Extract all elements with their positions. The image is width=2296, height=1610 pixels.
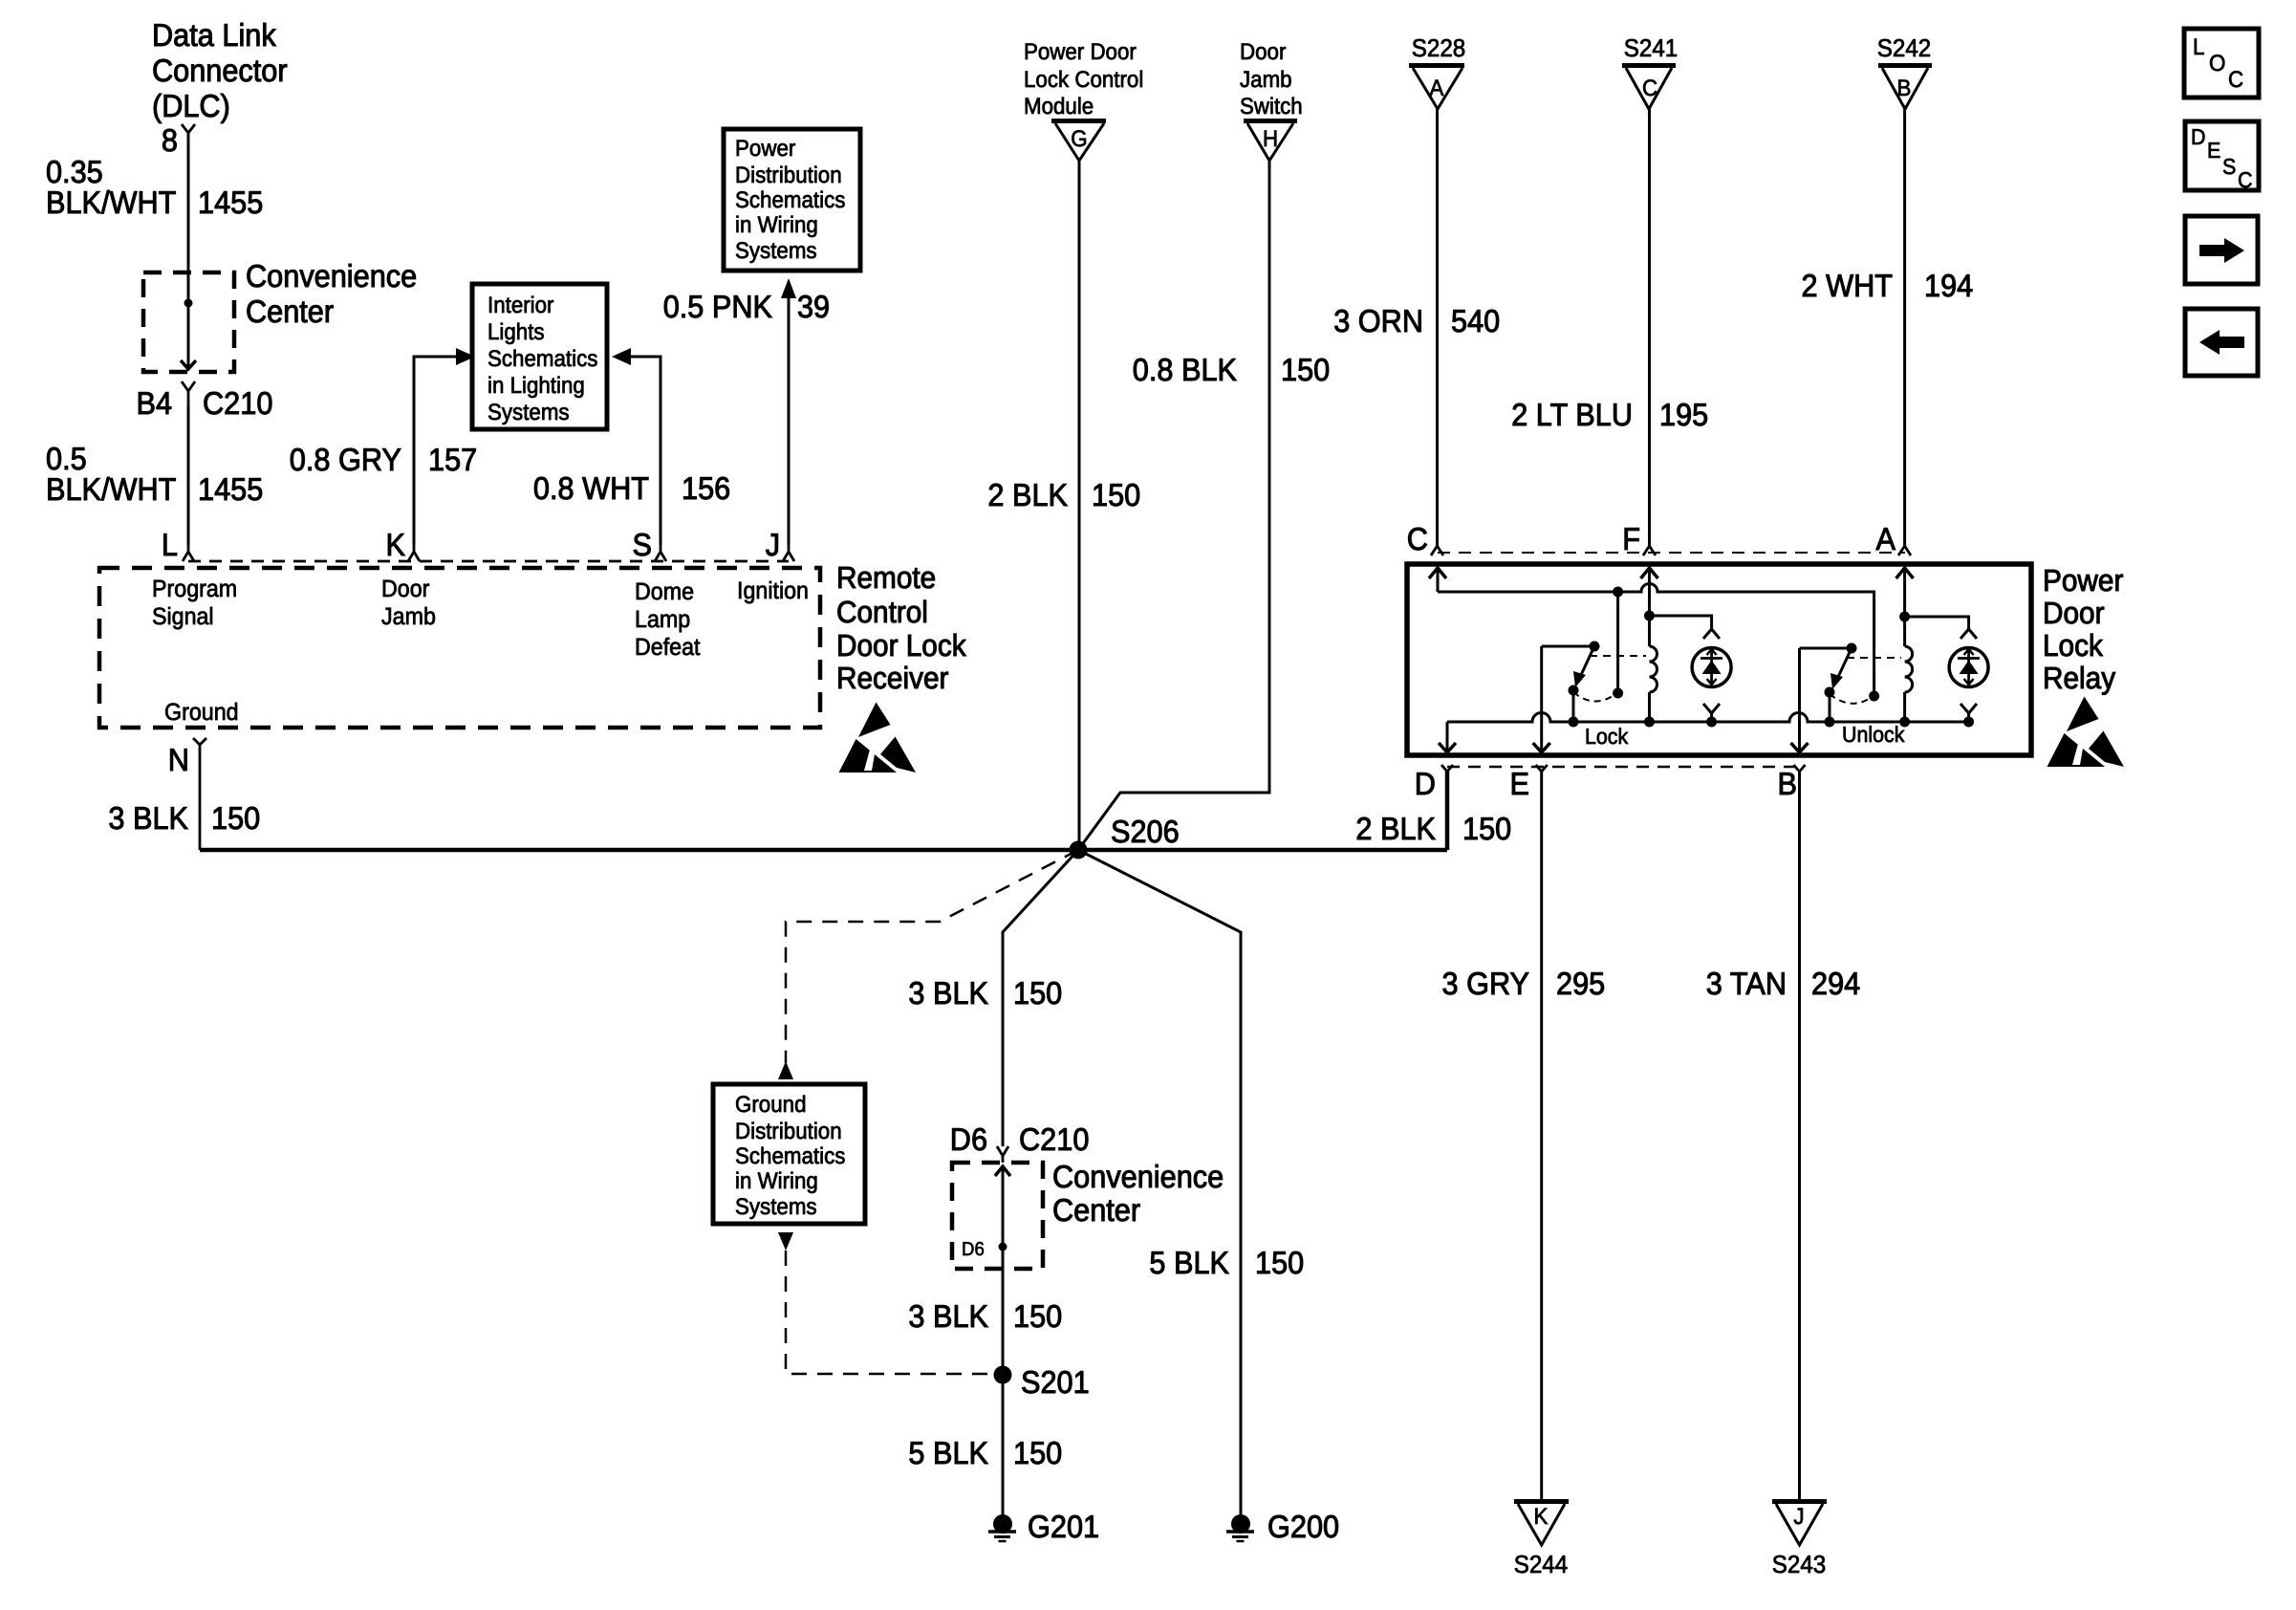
wire 3 TAN 294 : relay B down to S243 xyxy=(1798,772,1801,1499)
pin label Door Jamb xyxy=(381,576,436,630)
wire through lower Convenience Center with arrow up and D6 dot xyxy=(962,1166,1010,1375)
svg-text:150: 150 xyxy=(1013,975,1062,1011)
wire 0.5 BLK/WHT 1455 : C210 down to receiver terminal L xyxy=(187,405,190,545)
svg-text:Systems: Systems xyxy=(487,400,570,425)
svg-text:G200: G200 xyxy=(1267,1509,1339,1544)
component Power Door Lock Relay box xyxy=(1407,564,2031,755)
svg-text:Power Door: Power Door xyxy=(1024,39,1137,65)
svg-text:Lock: Lock xyxy=(1585,724,1629,749)
svg-text:Door Lock: Door Lock xyxy=(836,628,967,663)
svg-text:Data Link: Data Link xyxy=(152,17,276,53)
label 3 BLK 150 (lower) xyxy=(908,1298,1062,1334)
svg-text:C210: C210 xyxy=(1019,1121,1089,1157)
wire 3 ORN 540 : S228 A down to relay terminal C xyxy=(1436,109,1439,546)
terminal K of receiver xyxy=(386,527,421,562)
svg-text:2 BLK: 2 BLK xyxy=(1355,811,1436,846)
svg-text:3 BLK: 3 BLK xyxy=(108,800,188,836)
connector C210 pin B4 xyxy=(137,381,273,421)
svg-text:in Wiring: in Wiring xyxy=(735,1168,818,1194)
svg-text:Lamp: Lamp xyxy=(635,606,690,633)
wire 0.8 BLK 150 : H down then left to S206 xyxy=(1078,161,1269,850)
svg-text:C: C xyxy=(1407,521,1428,556)
connector triangle J to S243 xyxy=(1772,1499,1827,1578)
relay internal: arrow up at C xyxy=(1429,568,1446,592)
svg-text:0.5 PNK: 0.5 PNK xyxy=(663,289,772,324)
svg-text:G201: G201 xyxy=(1028,1509,1099,1544)
svg-text:A: A xyxy=(1876,521,1896,556)
connector triangle B from S242 xyxy=(1877,33,1932,109)
svg-text:Lights: Lights xyxy=(487,319,545,345)
svg-text:Ignition: Ignition xyxy=(737,577,809,604)
component Convenience Center (upper dashed box) xyxy=(143,272,234,372)
node Power Distribution Schematics in Wiring Systems box xyxy=(724,129,860,271)
svg-text:H: H xyxy=(1263,126,1278,152)
svg-text:Relay: Relay xyxy=(2043,661,2115,695)
svg-text:3 BLK: 3 BLK xyxy=(908,975,988,1011)
svg-text:156: 156 xyxy=(682,470,730,506)
wire 3 BLK 150 : S206 down-left to C210 D6 xyxy=(1003,850,1078,1146)
wire 0.5 PNK 39 : terminal J up arrow to Power Distribution box xyxy=(781,278,796,545)
svg-text:Schematics: Schematics xyxy=(487,346,597,372)
terminal L of receiver xyxy=(162,527,194,562)
terminal C of relay xyxy=(1407,521,1443,556)
wire 5 BLK 150 : S201 down to G201 xyxy=(1002,1375,1005,1519)
terminal D of relay xyxy=(1415,765,1453,850)
lock relay coil xyxy=(1644,616,1657,728)
junction S201 xyxy=(994,1364,1090,1400)
svg-text:540: 540 xyxy=(1451,303,1500,338)
svg-text:39: 39 xyxy=(797,289,830,324)
svg-text:S206: S206 xyxy=(1111,814,1180,849)
svg-text:294: 294 xyxy=(1811,966,1860,1001)
wire ground bus from N to S206 to D xyxy=(200,772,1447,850)
svg-text:Schematics: Schematics xyxy=(735,187,845,213)
connector strip dashed line at relay top xyxy=(1438,552,1905,554)
svg-text:150: 150 xyxy=(1013,1435,1062,1470)
svg-text:C: C xyxy=(1642,76,1657,101)
ESD sensitive symbol (receiver) xyxy=(839,703,917,773)
svg-text:N: N xyxy=(168,742,189,777)
svg-text:Switch: Switch xyxy=(1240,94,1303,120)
arrow up into Ground Distribution box xyxy=(778,1061,793,1079)
svg-text:Door: Door xyxy=(2043,596,2105,630)
svg-text:Receiver: Receiver xyxy=(836,661,949,695)
unlock relay coil xyxy=(1899,617,1913,728)
svg-text:(DLC): (DLC) xyxy=(152,88,230,123)
svg-text:B: B xyxy=(1897,76,1912,101)
svg-text:5 BLK: 5 BLK xyxy=(1149,1245,1229,1280)
label 2 BLK 150 (D wire) xyxy=(1355,811,1511,846)
label 3 BLK 150 (N ground wire) xyxy=(108,800,260,836)
label 0.5 PNK 39 xyxy=(663,289,830,324)
node Ground Distribution Schematics in Wiring Systems box xyxy=(713,1084,865,1224)
svg-text:S241: S241 xyxy=(1624,33,1679,62)
wire 0.35 BLK/WHT 1455 : DLC pin 8 down to Convenience Center xyxy=(187,133,190,272)
component Convenience Center (lower dashed box) xyxy=(952,1163,1043,1269)
svg-text:K: K xyxy=(386,527,406,562)
svg-text:Interior: Interior xyxy=(487,293,554,318)
svg-text:Ground: Ground xyxy=(735,1092,807,1118)
svg-text:150: 150 xyxy=(1013,1298,1062,1334)
svg-text:3 ORN: 3 ORN xyxy=(1333,303,1423,338)
connector triangle C from S241 xyxy=(1622,33,1678,109)
svg-text:F: F xyxy=(1622,521,1640,556)
svg-text:Door: Door xyxy=(1240,39,1286,65)
svg-text:in Lighting: in Lighting xyxy=(487,373,585,399)
svg-text:J: J xyxy=(1793,1504,1804,1530)
svg-text:Ground: Ground xyxy=(164,699,239,726)
svg-text:Systems: Systems xyxy=(735,1194,817,1220)
svg-text:150: 150 xyxy=(1462,811,1511,846)
connector C210 pin D6 xyxy=(950,1121,1090,1163)
svg-text:150: 150 xyxy=(1255,1245,1304,1280)
node Power Door Lock Relay title xyxy=(2043,563,2124,695)
lock switch (relay armature) xyxy=(1542,642,1646,728)
svg-text:D6: D6 xyxy=(962,1239,985,1260)
svg-text:Lock: Lock xyxy=(2043,628,2104,663)
svg-text:150: 150 xyxy=(1281,352,1330,387)
svg-text:295: 295 xyxy=(1556,966,1605,1001)
svg-text:C: C xyxy=(2228,67,2243,93)
node LOC legend box xyxy=(2184,29,2259,98)
svg-text:E: E xyxy=(1510,766,1530,801)
label 5 BLK 150 (G201 wire) xyxy=(908,1435,1062,1470)
terminal F of relay xyxy=(1622,521,1656,556)
svg-text:Jamb: Jamb xyxy=(1240,67,1292,93)
terminal A of relay xyxy=(1876,521,1912,556)
label 0.8 WHT 156 xyxy=(533,470,730,506)
svg-text:0.8 GRY: 0.8 GRY xyxy=(290,442,401,477)
svg-text:194: 194 xyxy=(1924,268,1973,303)
svg-text:S242: S242 xyxy=(1877,33,1932,62)
svg-text:L: L xyxy=(2193,34,2204,60)
terminal B of relay xyxy=(1778,765,1806,801)
node right-arrow legend box xyxy=(2185,216,2258,284)
svg-text:Systems: Systems xyxy=(735,238,817,264)
svg-text:Power: Power xyxy=(735,136,795,162)
relay internal: E wire down with arrow xyxy=(1533,646,1550,752)
svg-text:2 WHT: 2 WHT xyxy=(1802,268,1894,303)
svg-text:Door: Door xyxy=(381,576,429,602)
svg-text:K: K xyxy=(1534,1504,1549,1530)
svg-text:Dome: Dome xyxy=(635,578,694,605)
svg-text:B: B xyxy=(1778,766,1798,801)
wire 0.8 GRY 157 : terminal K up and arrow into Interior Lights box xyxy=(414,348,475,545)
connector strip dashed line at relay bottom xyxy=(1447,766,1800,769)
svg-text:150: 150 xyxy=(211,800,260,836)
unlock clamping diode D2 xyxy=(1905,617,1989,728)
svg-text:C210: C210 xyxy=(203,385,272,421)
svg-text:O: O xyxy=(2209,51,2225,76)
pin label Program Signal xyxy=(152,576,237,630)
svg-text:Convenience: Convenience xyxy=(246,258,417,294)
svg-text:BLK/WHT: BLK/WHT xyxy=(46,471,176,507)
node Data Link Connector (DLC) title xyxy=(152,17,288,123)
wire 3 GRY 295 : relay E down to S244 xyxy=(1540,772,1543,1499)
svg-text:S201: S201 xyxy=(1021,1364,1090,1400)
svg-text:S: S xyxy=(633,527,653,562)
svg-text:C: C xyxy=(2238,167,2253,192)
svg-text:1455: 1455 xyxy=(198,185,263,220)
svg-text:2 BLK: 2 BLK xyxy=(987,477,1068,512)
node Power Door Lock Control Module title xyxy=(1024,39,1143,120)
svg-text:Jamb: Jamb xyxy=(381,603,436,630)
label 3 BLK 150 (upper) xyxy=(908,975,1062,1011)
svg-text:Power: Power xyxy=(2043,563,2124,598)
node DESC legend box xyxy=(2185,121,2259,192)
pin label Dome Lamp Defeat xyxy=(635,578,701,661)
svg-text:5 BLK: 5 BLK xyxy=(908,1435,988,1470)
svg-text:Signal: Signal xyxy=(152,603,214,630)
connector triangle H (Door Jamb Switch) xyxy=(1244,119,1297,161)
svg-text:0.8 WHT: 0.8 WHT xyxy=(533,470,649,506)
svg-text:Program: Program xyxy=(152,576,237,602)
connector DLC pin 8 xyxy=(162,122,195,158)
label 0.8 GRY 157 xyxy=(290,442,477,477)
relay internal: D drop arrow xyxy=(1439,722,1456,752)
node Remote Control Door Lock Receiver title xyxy=(836,560,967,695)
svg-text:S228: S228 xyxy=(1412,33,1466,62)
label 3 TAN 294 xyxy=(1706,966,1860,1001)
svg-text:B4: B4 xyxy=(137,385,173,421)
label 2 BLK 150 (G wire) xyxy=(987,477,1140,512)
svg-text:S: S xyxy=(2222,154,2236,179)
svg-text:Lock Control: Lock Control xyxy=(1024,67,1143,93)
terminal N of receiver xyxy=(168,738,206,850)
svg-text:L: L xyxy=(162,527,178,562)
svg-text:D6: D6 xyxy=(950,1121,987,1157)
lock clamping diode D1 xyxy=(1650,616,1732,728)
svg-text:Control: Control xyxy=(836,595,928,629)
svg-text:E: E xyxy=(2207,138,2220,163)
svg-text:Schematics: Schematics xyxy=(735,1143,845,1169)
svg-text:D: D xyxy=(1415,766,1436,801)
ESD sensitive symbol (relay) xyxy=(2047,697,2125,768)
wire 2 WHT 194 : S242 B down to relay terminal A xyxy=(1903,109,1906,546)
svg-text:Distribution: Distribution xyxy=(735,163,842,188)
svg-text:A: A xyxy=(1430,76,1444,101)
node Interior Lights Schematics in Lighting Systems box xyxy=(472,284,607,429)
svg-text:J: J xyxy=(766,527,780,562)
ground G201 xyxy=(988,1509,1099,1544)
relay internal: arrow up at A and wire down to unlock coil junction xyxy=(1896,568,1914,622)
svg-text:D: D xyxy=(2191,124,2206,149)
label 5 BLK 150 (G200 wire) xyxy=(1149,1245,1304,1280)
svg-text:3 TAN: 3 TAN xyxy=(1706,966,1787,1001)
label 2 WHT 194 xyxy=(1802,268,1974,303)
wire 2 LT BLU 195 : S241 C down to relay terminal F xyxy=(1648,109,1651,546)
component Remote Control Door Lock Receiver dashed box xyxy=(99,568,820,728)
svg-text:Remote: Remote xyxy=(836,560,936,595)
svg-text:Center: Center xyxy=(246,294,334,329)
relay internal: bottom rail with hops over E and B wires xyxy=(1447,713,1969,723)
svg-text:BLK/WHT: BLK/WHT xyxy=(46,185,176,220)
connector triangle G (Power Door Lock Control Module) xyxy=(1051,119,1106,161)
terminal S of receiver xyxy=(633,527,667,562)
svg-text:Convenience: Convenience xyxy=(1052,1159,1224,1194)
svg-text:Center: Center xyxy=(1052,1192,1140,1228)
wire through Convenience Center with junction dot xyxy=(181,272,196,369)
junction dot on top rail feeding lock fixed contact xyxy=(1613,587,1623,699)
svg-text:8: 8 xyxy=(162,122,178,158)
connector strip dashed line at receiver top xyxy=(188,560,789,563)
svg-text:S244: S244 xyxy=(1514,1550,1569,1578)
svg-text:Connector: Connector xyxy=(152,53,288,88)
relay internal: B wire down with arrow xyxy=(1791,648,1809,752)
node Door Jamb Switch title xyxy=(1240,39,1303,120)
terminal J of receiver xyxy=(766,527,794,562)
label 0.35 BLK/WHT 1455 xyxy=(46,154,263,220)
svg-text:Defeat: Defeat xyxy=(635,634,701,661)
terminal E of relay xyxy=(1510,765,1548,801)
connector triangle K to S244 xyxy=(1514,1499,1569,1578)
label 0.8 BLK 150 (H wire) xyxy=(1133,352,1330,387)
label 3 ORN 540 xyxy=(1333,303,1500,338)
svg-text:S243: S243 xyxy=(1772,1550,1827,1578)
relay internal: top feed rail from C to unlock fixed contact xyxy=(1438,584,1874,697)
label 3 GRY 295 xyxy=(1442,966,1606,1001)
svg-text:3 BLK: 3 BLK xyxy=(908,1298,988,1334)
junction S206 xyxy=(1070,814,1180,859)
wire 0.8 WHT 156 : terminal S up and arrow into Interior Lights box xyxy=(612,348,661,545)
svg-text:G: G xyxy=(1071,126,1087,152)
dashed wire : Ground Distribution box down to S201 xyxy=(786,1251,994,1374)
dashed wire : S206 to Ground Distribution reference xyxy=(786,850,1078,1063)
svg-text:Module: Module xyxy=(1024,94,1094,120)
connector triangle A from S228 xyxy=(1409,33,1465,109)
svg-text:195: 195 xyxy=(1659,397,1708,432)
svg-text:in Wiring: in Wiring xyxy=(735,212,818,238)
relay internal: arrow up at F and wire with hop over rail down to coil junction xyxy=(1641,568,1658,621)
svg-text:Unlock: Unlock xyxy=(1842,722,1905,747)
node left-arrow legend box xyxy=(2185,309,2258,376)
wire 2 BLK 150 : G down to S206 xyxy=(1078,161,1081,850)
svg-text:Distribution: Distribution xyxy=(735,1119,842,1144)
ground G200 xyxy=(1226,1509,1339,1544)
label 0.5 BLK/WHT 1455 xyxy=(46,441,263,507)
label 2 LT BLU 195 xyxy=(1511,397,1708,432)
arrow down below Ground Distribution box xyxy=(778,1232,793,1251)
junction dot at unlock fixed contact xyxy=(1869,691,1879,702)
svg-text:157: 157 xyxy=(428,442,477,477)
svg-text:0.8 BLK: 0.8 BLK xyxy=(1133,352,1237,387)
svg-text:3 GRY: 3 GRY xyxy=(1442,966,1530,1001)
svg-text:150: 150 xyxy=(1092,477,1140,512)
wire 5 BLK 150 : S206 down-right to G200 xyxy=(1078,850,1241,1519)
svg-text:2 LT BLU: 2 LT BLU xyxy=(1511,397,1633,432)
svg-text:1455: 1455 xyxy=(198,471,263,507)
unlock switch (relay armature) xyxy=(1800,643,1902,728)
